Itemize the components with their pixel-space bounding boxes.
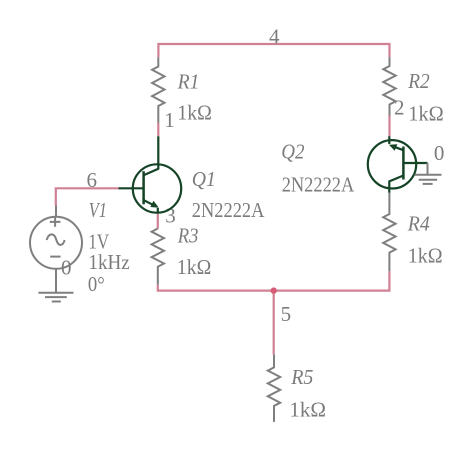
svg-text:4: 4 <box>269 24 280 48</box>
svg-text:R5: R5 <box>290 365 313 389</box>
ground at Q2 base <box>415 163 442 184</box>
resistor R3 <box>152 229 164 285</box>
svg-text:R2: R2 <box>407 69 430 93</box>
svg-text:5: 5 <box>281 302 292 326</box>
wire node 1 (R1 to Q1 collector) <box>157 123 159 136</box>
svg-text:R3: R3 <box>177 223 199 247</box>
svg-text:1kΩ: 1kΩ <box>177 255 211 279</box>
svg-text:R1: R1 <box>177 69 200 93</box>
ground below V1 <box>38 293 73 302</box>
svg-text:1kHz: 1kHz <box>88 250 129 274</box>
resistor R4 <box>383 193 395 272</box>
Q2 emitter arrow <box>389 144 398 151</box>
svg-text:2N2222A: 2N2222A <box>282 173 355 197</box>
svg-text:2N2222A: 2N2222A <box>192 198 265 222</box>
svg-text:1kΩ: 1kΩ <box>408 243 443 267</box>
wire node 3 (Q1 emitter to R3) <box>157 214 159 229</box>
svg-text:V1: V1 <box>89 198 107 222</box>
junction node 5 <box>271 287 277 293</box>
svg-text:1kΩ: 1kΩ <box>408 102 443 126</box>
svg-text:Q2: Q2 <box>281 140 305 164</box>
wire node 5 to R5 <box>273 291 275 355</box>
svg-text:0: 0 <box>61 256 72 280</box>
svg-text:6: 6 <box>87 168 98 192</box>
resistor R1 <box>152 57 164 123</box>
wire node 2 (R2 to Q2 emitter) <box>388 116 390 137</box>
transistor Q1 <box>119 136 182 213</box>
wire node 6 (V1 to Q1 base) <box>56 188 119 205</box>
svg-text:1: 1 <box>164 108 175 132</box>
Q1 emitter arrow <box>150 201 158 208</box>
svg-text:0°: 0° <box>88 272 105 296</box>
wire top net 4 <box>158 44 389 57</box>
wire bottom net 5 <box>158 271 390 290</box>
svg-text:0: 0 <box>434 141 445 165</box>
svg-text:R4: R4 <box>407 211 430 235</box>
transistor Q2 <box>368 136 428 193</box>
svg-text:2: 2 <box>394 96 405 120</box>
resistor R5 <box>268 355 280 422</box>
svg-text:1kΩ: 1kΩ <box>177 100 212 124</box>
resistor R2 <box>383 57 395 115</box>
voltage source V1 <box>30 206 82 293</box>
svg-text:1kΩ: 1kΩ <box>289 398 326 422</box>
svg-text:Q1: Q1 <box>192 167 216 191</box>
